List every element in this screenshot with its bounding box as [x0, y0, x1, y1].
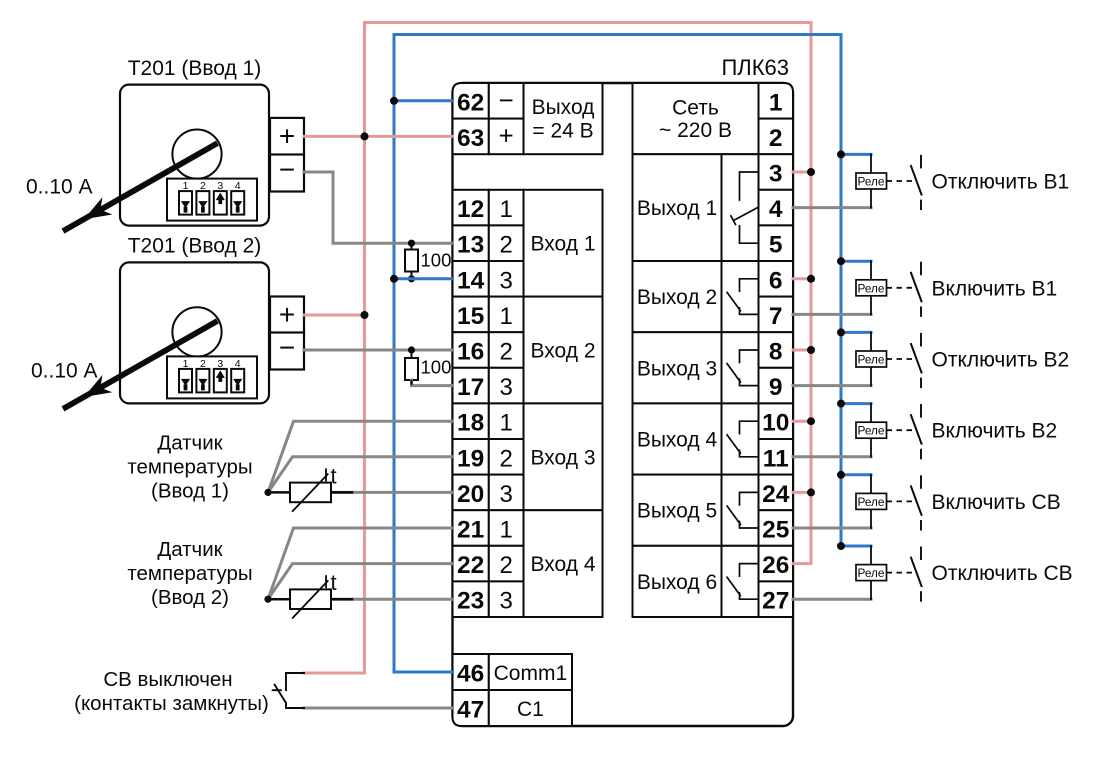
svg-text:2: 2 [499, 232, 512, 259]
wire gray sensor 2 to terminal pin2 [268, 564, 453, 600]
label box C1 [489, 690, 572, 726]
output group box Выход 3 [633, 332, 759, 403]
actuated switch symbol of relay 4 [887, 429, 917, 431]
svg-text:Датчик: Датчик [157, 431, 223, 454]
terminal 25 cell [759, 510, 794, 546]
svg-text:Отключить В2: Отключить В2 [932, 349, 1070, 372]
output group box Выход 2 [633, 261, 759, 332]
svg-text:16: 16 [457, 339, 484, 366]
terminal 14 cell [453, 261, 489, 297]
junction on red bus at terminal 24 [807, 488, 815, 496]
terminal 24 cell [759, 475, 794, 511]
junction on blue bus at terminal 62 [390, 97, 398, 105]
svg-text:Т201 (Ввод 1): Т201 (Ввод 1) [128, 57, 262, 80]
wire blue branch to relay 5 [841, 473, 871, 476]
transformer circle [172, 130, 221, 179]
wire blue branch to relay 2 [841, 260, 871, 263]
terminal 12 cell [453, 190, 489, 226]
junction on blue bus at relay 6 [837, 542, 845, 550]
relay contact symbol of Выход 6 [740, 564, 759, 577]
wire gray from terminal 9 to relay 3 [793, 384, 871, 387]
svg-text:23: 23 [457, 588, 484, 615]
label box Вход 3 [524, 403, 603, 510]
terminal minus of T201 #1 [270, 155, 304, 192]
svg-text:t: t [331, 570, 337, 595]
wire gray from T201 #1 minus to terminal 13 [304, 172, 453, 243]
svg-text:2: 2 [499, 445, 512, 472]
svg-text:Сеть: Сеть [672, 97, 719, 120]
label box Выход = 24 В [524, 83, 603, 154]
junction on red bus at terminal 10 [807, 417, 815, 425]
actuated switch symbol of relay 5 [887, 500, 917, 502]
wire gray sensor 1 to terminal pin3 [331, 491, 453, 494]
terminal 17 cell [453, 368, 489, 404]
label box Вход 1 [524, 190, 603, 297]
wire pink left vertical +24V bus [363, 23, 366, 674]
svg-text:47: 47 [457, 697, 484, 724]
pin 2 cell of terminal 13 [489, 225, 524, 261]
terminal 4 cell [759, 190, 794, 226]
output group box Выход 1 [633, 154, 759, 261]
svg-text:1: 1 [499, 517, 512, 544]
resistor 100 Ohm input 1 [411, 243, 413, 249]
junction on blue bus at relay 4 [837, 400, 845, 408]
terminal 9 cell [759, 368, 794, 404]
node sensor 2 common point [264, 596, 271, 603]
relay contact symbol of Выход 1 [740, 172, 759, 200]
svg-text:100: 100 [421, 357, 452, 378]
terminal 6 cell [759, 261, 794, 297]
output group box Выход 6 [633, 546, 759, 617]
svg-text:(Ввод 1): (Ввод 1) [151, 479, 229, 502]
wire gray from terminal 11 to relay 4 [793, 455, 871, 458]
wire blue top from left vertical to right vertical [394, 33, 841, 36]
svg-text:3: 3 [499, 588, 512, 615]
terminal 2 cell [759, 119, 794, 155]
svg-text:13: 13 [457, 232, 484, 259]
terminal plus of T201 #1 [270, 118, 304, 155]
svg-text:Включить В1: Включить В1 [932, 277, 1058, 300]
svg-text:Реле: Реле [858, 424, 885, 438]
CB closed contact switch symbol [286, 673, 304, 690]
svg-text:0..10 А: 0..10 А [31, 360, 98, 383]
svg-text:−: − [499, 85, 514, 115]
wire pink from CB switch up the pink bus [304, 672, 365, 675]
terminal 20 cell [453, 475, 489, 511]
relay coil Реле 6 [870, 546, 872, 565]
svg-text:3: 3 [499, 267, 512, 294]
terminal 26 cell [759, 546, 794, 582]
wire red stub to terminal 3 [793, 171, 811, 174]
svg-text:Т201 (Ввод 2): Т201 (Ввод 2) [128, 235, 262, 258]
wire gray from T201 #2 minus to terminal 16 [304, 349, 453, 352]
node sensor 1 common point [264, 489, 271, 496]
DIP switch block [167, 356, 257, 398]
pin 3 cell of terminal 23 [489, 581, 524, 617]
terminal 3 cell [759, 154, 794, 190]
relay coil Реле 2 [870, 261, 872, 280]
wire red right vertical bus to output terminals [793, 23, 811, 564]
svg-text:18: 18 [457, 410, 484, 437]
svg-text:24: 24 [762, 481, 790, 508]
wire gray from terminal 7 to relay 2 [793, 313, 871, 316]
wire red stub to terminal 6 [793, 277, 811, 280]
svg-text:3: 3 [769, 161, 783, 188]
pin 2 cell of terminal 16 [489, 332, 524, 368]
terminal 13 cell [453, 225, 489, 261]
svg-text:Вход 1: Вход 1 [530, 233, 595, 256]
wire blue to terminal 62 [394, 99, 453, 102]
transformer circle [172, 307, 221, 356]
wire blue right vertical bus [840, 35, 843, 547]
svg-text:ПЛК63: ПЛК63 [721, 55, 789, 80]
terminal 63 cell [453, 119, 489, 155]
terminal 23 cell [453, 581, 489, 617]
svg-text:19: 19 [457, 445, 484, 472]
pin 2 cell of terminal 22 [489, 546, 524, 582]
svg-text:Реле: Реле [858, 281, 885, 295]
wire red stub to terminal 8 [793, 349, 811, 352]
svg-text:Выход 1: Выход 1 [637, 197, 717, 220]
svg-text:Реле: Реле [858, 566, 885, 580]
relay coil Реле 1 [870, 154, 872, 173]
wire gray from CB switch to terminal 47 [304, 707, 453, 710]
svg-text:температуры: температуры [127, 562, 252, 585]
junction on pink bus at terminal 63 [361, 132, 369, 140]
label box Вход 4 [524, 510, 603, 617]
wire gray from terminal 25 to relay 5 [793, 527, 871, 530]
pin 3 cell of terminal 14 [489, 261, 524, 297]
svg-text:7: 7 [769, 303, 783, 330]
junction on blue bus at terminal 14 [390, 275, 398, 283]
wire blue left vertical -24V bus [393, 35, 396, 673]
svg-text:температуры: температуры [127, 455, 252, 478]
svg-text:11: 11 [763, 445, 789, 472]
svg-text:Comm1: Comm1 [494, 662, 568, 685]
terminal 21 cell [453, 510, 489, 546]
svg-text:17: 17 [457, 374, 484, 401]
terminal plus of T201 #2 [270, 297, 304, 334]
terminal 11 cell [759, 439, 794, 475]
wire blue branch to relay 3 [841, 331, 871, 334]
svg-text:Выход 6: Выход 6 [637, 571, 717, 594]
svg-text:4: 4 [769, 196, 783, 223]
output group box Выход 5 [633, 475, 759, 546]
junction on red bus at terminal 3 [807, 168, 815, 176]
svg-text:22: 22 [457, 552, 484, 579]
wire gray from terminal 27 to relay 6 [793, 598, 871, 601]
svg-text:Выход 2: Выход 2 [637, 286, 717, 309]
wire pink from T201 #1 plus to terminal 63 [304, 135, 453, 138]
svg-text:27: 27 [762, 588, 789, 615]
svg-text:15: 15 [457, 303, 484, 330]
relay contact symbol of Выход 2 [740, 279, 759, 292]
terminal 1 cell [759, 83, 794, 119]
svg-text:1: 1 [499, 303, 512, 330]
pin 1 cell of terminal 18 [489, 403, 524, 439]
relay coil Реле 5 [870, 475, 872, 494]
RTD thermistor symbol sensor 2 [268, 598, 290, 601]
relay contact symbol of Выход 3 [740, 350, 759, 363]
svg-text:3: 3 [499, 481, 512, 508]
wire gray sensor 1 to terminal pin1 [268, 421, 453, 492]
current transformer T201 (Ввод 2) [31, 235, 304, 409]
pin 3 cell of terminal 17 [489, 368, 524, 404]
svg-text:Вход 3: Вход 3 [530, 446, 595, 469]
junction on blue bus at relay 2 [837, 257, 845, 265]
wire blue from blue bus to terminal 46 [394, 671, 453, 674]
svg-text:8: 8 [769, 339, 783, 366]
terminal 46 cell [453, 654, 489, 690]
svg-text:Вход 2: Вход 2 [530, 340, 595, 363]
DIP switch block [167, 179, 257, 221]
svg-text:Включить В2: Включить В2 [932, 420, 1058, 443]
wire gray sensor 2 to terminal pin1 [268, 528, 453, 599]
svg-text:Реле: Реле [858, 495, 885, 509]
relay coil Реле 4 [870, 404, 872, 423]
primary conductor thick arrow 0..10 A [63, 143, 218, 231]
svg-text:2: 2 [499, 339, 512, 366]
wire gray from terminal 4 to relay 1 [793, 206, 871, 209]
terminal 27 cell [759, 581, 794, 617]
actuated switch symbol of relay 3 [887, 358, 917, 360]
svg-text:C1: C1 [517, 698, 544, 721]
actuated switch symbol of relay 2 [887, 287, 917, 289]
wire blue branch to relay 6 [841, 545, 871, 548]
junction on red bus at terminal 8 [807, 346, 815, 354]
svg-text:20: 20 [457, 481, 484, 508]
svg-text:25: 25 [762, 517, 789, 544]
svg-text:1: 1 [769, 89, 783, 116]
pin 1 cell of terminal 12 [489, 190, 524, 226]
svg-text:100: 100 [421, 250, 452, 271]
svg-text:21: 21 [457, 517, 484, 544]
terminal 47 cell [453, 690, 489, 726]
RTD thermistor symbol sensor 1 [268, 491, 290, 494]
pin 1 cell of terminal 15 [489, 297, 524, 333]
junction on blue bus at relay 3 [837, 328, 845, 336]
primary conductor thick arrow 0..10 A [63, 321, 218, 409]
junction resistor 100 top on wire 13 [408, 240, 415, 247]
svg-text:Реле: Реле [858, 175, 885, 189]
svg-text:t: t [331, 463, 337, 488]
pin 1 cell of terminal 21 [489, 510, 524, 546]
terminal 5 cell [759, 225, 794, 261]
svg-text:3: 3 [499, 374, 512, 401]
pin plus cell [489, 119, 524, 155]
junction on pink bus at T201 #2 plus [361, 311, 369, 319]
svg-text:1: 1 [499, 196, 512, 223]
svg-text:26: 26 [762, 552, 789, 579]
junction on blue bus at relay 1 [837, 150, 845, 158]
pin 2 cell of terminal 19 [489, 439, 524, 475]
svg-text:Реле: Реле [858, 353, 885, 367]
relay contact symbol of Выход 4 [740, 421, 759, 434]
relay contact symbol of Выход 5 [740, 492, 759, 505]
wire pink from T201 #2 plus to pink bus [304, 314, 365, 317]
svg-text:(контакты замкнуты): (контакты замкнуты) [74, 692, 269, 715]
wire +24V top pink from left vertical to right vertical [365, 21, 812, 24]
wire blue branch to relay 4 [841, 402, 871, 405]
svg-text:10: 10 [762, 410, 789, 437]
junction resistor 100 bottom on wire 14 [408, 275, 415, 282]
svg-text:Датчик: Датчик [157, 538, 223, 561]
label box Вход 2 [524, 297, 603, 404]
actuated switch symbol of relay 1 [887, 180, 917, 182]
svg-text:(Ввод 2): (Ввод 2) [151, 586, 229, 609]
svg-text:14: 14 [457, 267, 485, 294]
svg-text:Вход 4: Вход 4 [530, 553, 595, 576]
terminal 10 cell [759, 403, 794, 439]
terminal 62 cell [453, 83, 489, 119]
junction resistor 100 top on wire 16 [408, 346, 415, 353]
svg-text:−: − [279, 332, 295, 363]
terminal 22 cell [453, 546, 489, 582]
terminal 18 cell [453, 403, 489, 439]
svg-text:= 24 В: = 24 В [532, 120, 593, 143]
svg-text:9: 9 [769, 374, 783, 401]
terminal 16 cell [453, 332, 489, 368]
wire blue branch to relay 1 [841, 153, 871, 156]
svg-text:+: + [279, 299, 295, 330]
label box Comm1 [489, 654, 572, 690]
actuated switch symbol of relay 6 [887, 572, 917, 574]
relay coil Реле 3 [870, 332, 872, 351]
terminal 15 cell [453, 297, 489, 333]
svg-text:СВ выключен: СВ выключен [103, 668, 232, 691]
wire red stub to terminal 10 [793, 420, 811, 423]
svg-text:46: 46 [457, 661, 484, 688]
svg-text:Выход 5: Выход 5 [637, 500, 717, 523]
svg-text:Выход: Выход [532, 96, 595, 119]
svg-text:2: 2 [769, 125, 783, 152]
junction on red bus at terminal 6 [807, 275, 815, 283]
group box Сеть ~220 В [633, 83, 759, 154]
junction on blue bus at relay 5 [837, 471, 845, 479]
svg-text:6: 6 [769, 267, 783, 294]
svg-text:5: 5 [769, 232, 783, 259]
svg-text:1: 1 [499, 410, 512, 437]
pin minus cell [489, 83, 524, 119]
svg-text:Выход 4: Выход 4 [637, 429, 718, 452]
svg-text:~ 220 В: ~ 220 В [659, 119, 732, 142]
terminal 7 cell [759, 297, 794, 333]
svg-text:+: + [279, 120, 295, 151]
svg-text:Включить СВ: Включить СВ [932, 491, 1061, 514]
output group box Выход 4 [633, 403, 759, 474]
wire gray sensor 1 to terminal pin2 [268, 457, 453, 493]
svg-text:12: 12 [457, 196, 484, 223]
pin 3 cell of terminal 20 [489, 475, 524, 511]
svg-text:Отключить СВ: Отключить СВ [932, 562, 1073, 585]
svg-text:2: 2 [499, 552, 512, 579]
terminal 19 cell [453, 439, 489, 475]
svg-text:Выход 3: Выход 3 [637, 357, 717, 380]
svg-text:0..10 А: 0..10 А [26, 176, 93, 199]
wire blue to terminal 14 [394, 277, 453, 280]
resistor 100 Ohm input 2 [411, 350, 413, 358]
wire gray sensor 2 to terminal pin3 [331, 598, 453, 601]
current transformer T201 (Ввод 1) [26, 57, 304, 231]
svg-text:62: 62 [457, 89, 484, 116]
svg-text:63: 63 [457, 125, 484, 152]
svg-text:−: − [279, 154, 295, 185]
PLC ПЛК63 outer box [453, 83, 794, 726]
terminal minus of T201 #2 [270, 333, 304, 370]
svg-text:Отключить В1: Отключить В1 [932, 171, 1070, 194]
wire red stub to terminal 24 [793, 491, 811, 494]
svg-text:+: + [499, 120, 514, 150]
terminal 8 cell [759, 332, 794, 368]
